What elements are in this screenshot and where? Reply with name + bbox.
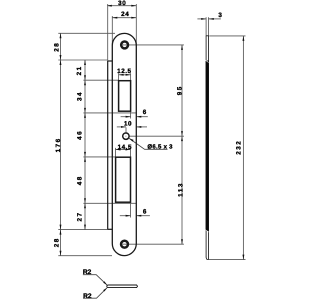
- svg-text:Ø6.5 x 3: Ø6.5 x 3: [147, 143, 173, 150]
- svg-text:R2: R2: [83, 269, 92, 276]
- svg-text:24: 24: [121, 11, 129, 18]
- svg-text:10: 10: [124, 120, 132, 127]
- svg-text:R2: R2: [83, 293, 92, 300]
- svg-text:28: 28: [54, 237, 61, 247]
- svg-text:30: 30: [118, 0, 126, 7]
- svg-text:113: 113: [177, 182, 184, 197]
- svg-text:21: 21: [76, 65, 83, 75]
- svg-text:6: 6: [143, 209, 147, 216]
- svg-text:232: 232: [236, 140, 243, 155]
- svg-text:28: 28: [53, 42, 60, 52]
- svg-text:46: 46: [77, 130, 84, 140]
- svg-text:6: 6: [143, 109, 147, 116]
- svg-text:34: 34: [77, 91, 84, 101]
- svg-text:3: 3: [218, 12, 222, 19]
- svg-text:48: 48: [77, 175, 84, 185]
- svg-text:14.5: 14.5: [118, 144, 132, 151]
- svg-text:95: 95: [177, 85, 184, 95]
- svg-text:27: 27: [76, 211, 83, 221]
- svg-text:176: 176: [55, 137, 62, 152]
- svg-text:12.5: 12.5: [117, 68, 131, 75]
